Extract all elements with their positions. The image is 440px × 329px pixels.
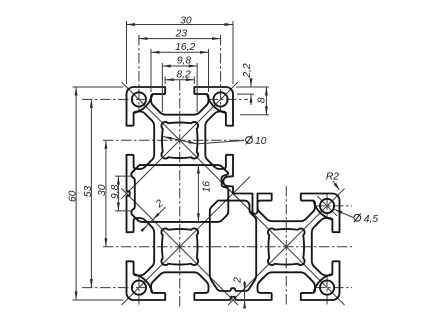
dimension 30 left	[97, 140, 108, 247]
profile outline	[127, 87, 340, 300]
svg-text:2: 2	[232, 277, 243, 284]
cell A diagonals	[122, 82, 239, 199]
svg-text:8,2: 8,2	[176, 69, 191, 80]
center lines hole C-BR	[315, 276, 352, 307]
boss wall B-BL	[134, 274, 153, 293]
dimension 16.2 top	[151, 42, 209, 92]
svg-text:60: 60	[68, 190, 79, 202]
corner hole C-TR	[320, 199, 334, 213]
dimension 2.2 right of top slot	[237, 63, 254, 105]
label diameter 10 with leader	[163, 136, 267, 147]
cavity between cells B and C	[210, 201, 256, 291]
dimension 16 middle	[197, 165, 212, 222]
core hole cell B	[161, 228, 198, 265]
boss wall C-TR	[314, 201, 333, 220]
corner hole C-BR	[320, 280, 334, 294]
corner hole A-TL	[132, 92, 146, 106]
center lines hole A-TL	[82, 35, 152, 112]
svg-text:8: 8	[257, 97, 268, 103]
center line horizontal cell A	[103, 139, 244, 141]
dimension 30 top	[127, 15, 234, 84]
dimension 60 left	[68, 87, 124, 300]
core hole cell A	[161, 122, 198, 159]
dimension 8 right	[236, 87, 269, 115]
dimension 23 top	[139, 28, 221, 40]
svg-text:23: 23	[175, 28, 188, 39]
boss wall A-TL	[134, 94, 153, 113]
core hole cell C	[268, 228, 305, 265]
dimension 9.8 top	[162, 56, 197, 113]
label diameter 4.5 with leader	[334, 209, 378, 225]
svg-text:53: 53	[83, 186, 94, 198]
label R2 with leader	[326, 171, 340, 190]
cell B diagonals	[122, 177, 251, 306]
svg-text:30: 30	[97, 184, 108, 196]
svg-text:2,2: 2,2	[242, 63, 253, 79]
dimension 8.2 top	[165, 69, 194, 84]
center lines hole B-BL	[82, 276, 152, 307]
corner hole A-TR	[213, 92, 227, 106]
boss wall C-BR	[314, 274, 333, 293]
dimension 2 wall leader	[140, 198, 165, 232]
boss wall A-TR	[207, 94, 226, 113]
svg-text:9,8: 9,8	[110, 184, 121, 199]
center line horizontal cells B C	[103, 246, 352, 248]
center line vertical cell C	[285, 186, 287, 307]
svg-text:16: 16	[201, 181, 212, 193]
cavity between cells A and B	[131, 165, 228, 222]
dimension 9.8 left	[110, 176, 133, 211]
center lines hole A-TR	[208, 35, 248, 112]
svg-text:9,8: 9,8	[177, 56, 192, 67]
svg-text:16,2: 16,2	[175, 42, 195, 53]
svg-text:4,5: 4,5	[364, 214, 379, 225]
svg-text:10: 10	[255, 136, 267, 147]
dimension 53 left	[83, 99, 94, 287]
svg-text:R2: R2	[326, 171, 339, 182]
dimension 2 bottom wall	[232, 277, 246, 309]
corner hole B-BL	[132, 280, 146, 294]
cell C diagonals	[228, 189, 345, 306]
svg-text:30: 30	[180, 15, 192, 26]
center lines hole C-TR	[315, 194, 352, 218]
center line vertical cells A B	[179, 80, 181, 307]
